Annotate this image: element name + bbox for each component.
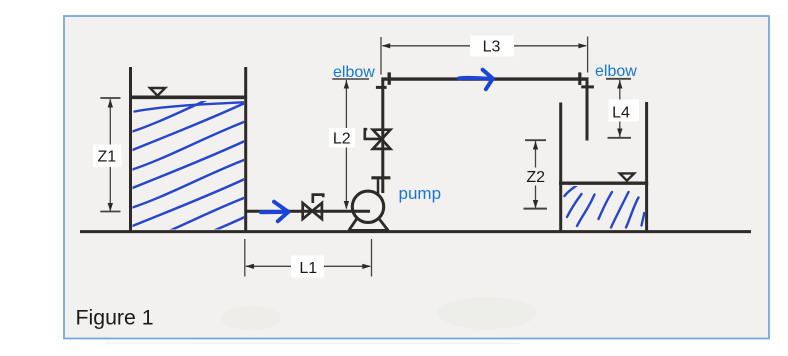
svg-text:L1: L1 bbox=[299, 260, 317, 277]
svg-text:Figure 1: Figure 1 bbox=[76, 306, 154, 330]
svg-text:elbow: elbow bbox=[595, 63, 637, 80]
svg-text:elbow: elbow bbox=[333, 64, 375, 81]
svg-text:L2: L2 bbox=[333, 130, 351, 147]
svg-text:pump: pump bbox=[399, 184, 442, 203]
svg-text:L3: L3 bbox=[483, 39, 501, 56]
svg-text:Z1: Z1 bbox=[97, 149, 116, 166]
svg-text:L4: L4 bbox=[612, 105, 630, 122]
svg-text:Z2: Z2 bbox=[526, 169, 545, 186]
